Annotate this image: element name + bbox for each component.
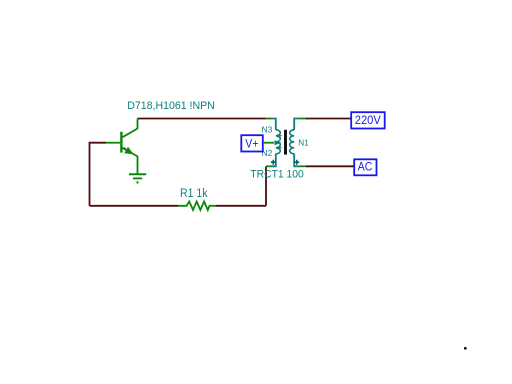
center tap arrow [275, 140, 282, 145]
wire teal corner into primary top [272, 119, 276, 130]
transistor Q1 emitter [123, 148, 138, 174]
transformer TRCT1 primary coil (left) [276, 130, 281, 154]
wire top collector-to-primary (maroon) [138, 118, 266, 120]
ground [129, 174, 146, 183]
transistor Q1 collector [123, 119, 138, 138]
transistor Q1 emitter tick [123, 147, 127, 149]
plus mark primary bottom [271, 160, 276, 165]
wire secondary bottom green stub [300, 165, 307, 167]
svg-text:R1 1k: R1 1k [180, 188, 208, 200]
wire secondary bottom teal [294, 154, 299, 167]
wire top green pin stub left coil [266, 118, 273, 120]
svg-text:N1: N1 [298, 137, 309, 147]
terminal 220V box [351, 112, 385, 128]
svg-text:TRCT1 100: TRCT1 100 [250, 168, 303, 180]
wire secondary top green stub [300, 118, 307, 120]
plus mark secondary bottom [294, 160, 299, 165]
transistor Q1 base bar [120, 132, 122, 153]
transistor Q1 base pin stub (green) [106, 142, 120, 144]
transformer TRCT1 secondary coil (right) [290, 130, 295, 154]
wire right vertical to secondary bottom (maroon) [265, 166, 267, 206]
transformer core [284, 130, 287, 155]
terminal AC box [354, 159, 376, 175]
svg-text:V+: V+ [245, 139, 258, 151]
wire V+ to center tap (green) [263, 142, 274, 144]
wire green stub at secondary bottom corner [266, 165, 272, 167]
resistor R1 body zigzag [178, 202, 216, 211]
wire bottom left (maroon) [90, 205, 179, 207]
transistor Q1 emitter arrow [124, 147, 133, 155]
wire secondary bottom maroon to AC [306, 165, 354, 167]
terminal V+ box [241, 135, 262, 151]
wire secondary top teal [294, 119, 299, 130]
svg-text:D718,H1061 !NPN: D718,H1061 !NPN [127, 100, 215, 112]
svg-text:AC: AC [358, 162, 373, 174]
stray dot bottom right [464, 347, 467, 350]
svg-text:N3: N3 [262, 124, 273, 134]
wire base (maroon) [90, 143, 107, 206]
wire teal corner from primary bottom lead [272, 154, 276, 167]
wire bottom right (maroon) [216, 205, 266, 207]
transformer primary cusp marks [278, 134, 283, 138]
svg-text:220V: 220V [355, 115, 381, 127]
wire secondary top maroon to 220V [306, 118, 351, 120]
